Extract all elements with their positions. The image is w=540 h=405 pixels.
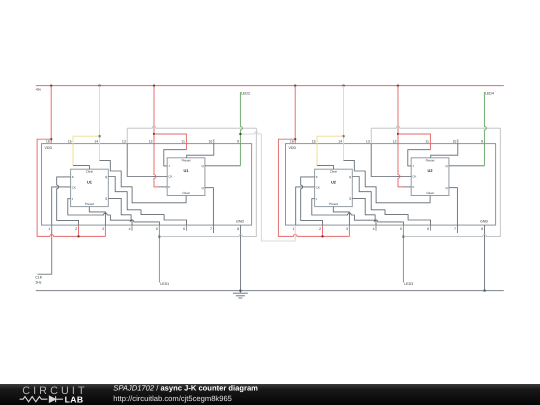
junction on +5v rail (294, 85, 296, 87)
svg-text:Preset: Preset (182, 158, 191, 162)
pin numbers top row U2 (290, 140, 483, 144)
junction pin5 loop U1 (158, 236, 160, 238)
svg-text:6: 6 (183, 227, 185, 231)
wire pin8 to ground U1 (240, 225, 242, 291)
svg-text:11: 11 (425, 140, 429, 144)
wire yellow branch pin15 U2 (317, 136, 344, 165)
svg-text:CLK: CLK (35, 276, 43, 280)
junction gnd rail right IC (484, 290, 486, 292)
svg-text:1Hz: 1Hz (35, 281, 42, 285)
svg-text:16: 16 (290, 140, 294, 144)
svg-text:Preset: Preset (85, 202, 94, 206)
svg-text:CK: CK (316, 185, 320, 189)
svg-text:VDD: VDD (45, 146, 53, 150)
svg-text:13: 13 (366, 140, 370, 144)
wire hop k1 over clk1 U2 (300, 185, 302, 188)
wire Clear1 U1 (73, 166, 90, 170)
svg-text:U2: U2 (428, 168, 434, 173)
wire cascade Q2 to U2 clock (240, 134, 295, 241)
svg-text:Preset: Preset (329, 202, 338, 206)
svg-text:3: 3 (346, 227, 348, 231)
pin stub 6 U2 (430, 225, 432, 231)
junction on +5v rail (99, 85, 101, 87)
wire yellow branch pin15 U1 (73, 136, 100, 165)
wire red pin2 stub U2 (322, 225, 324, 236)
junction gnd rail left IC (239, 290, 241, 292)
svg-text:K: K (316, 175, 318, 179)
wire red pin3 stub U1 (104, 225, 106, 236)
pin stub 4 U1 (131, 225, 133, 231)
svg-text:13: 13 (122, 140, 126, 144)
junction pin16 U2 (294, 138, 296, 140)
svg-text:1: 1 (48, 227, 50, 231)
wire LED 1 green pin5 U1 (158, 225, 160, 282)
pin numbers bottom row U1 (48, 227, 239, 231)
svg-text:Clear: Clear (330, 170, 337, 174)
svg-text:6: 6 (427, 227, 429, 231)
wire J1 to pin4 U1 (68, 199, 132, 225)
svg-text:SPAJD1702 / async J-K counter: SPAJD1702 / async J-K counter diagram (113, 384, 258, 393)
junction on +5v rail (343, 85, 345, 87)
wire red pin2 stub U1 (78, 225, 80, 236)
IC U1 DIP outline (42, 144, 252, 226)
wire pin8 to ground U2 (484, 225, 486, 291)
wire +5v red drop pin12 U2 (397, 86, 399, 134)
svg-text:CK: CK (412, 175, 416, 179)
svg-text:2: 2 (75, 227, 77, 231)
wire red left branch U1 (37, 139, 105, 236)
wire +5v drop to pin 16 U2 (294, 86, 296, 144)
svg-text:http://circuitlab.com/cjt5cegm: http://circuitlab.com/cjt5cegm8k965 (113, 394, 232, 403)
svg-text:GND: GND (480, 220, 488, 224)
wire hop cascade over loop (255, 133, 258, 135)
pin numbers top row U1 (46, 140, 239, 144)
wire LED 2 green to Q2 U1 (239, 92, 241, 166)
wire hop red bottom U2 (294, 235, 297, 237)
svg-text:GND: GND (236, 220, 244, 224)
svg-text:11: 11 (181, 140, 185, 144)
node +5v power rail (36, 85, 504, 87)
svg-text:5: 5 (400, 227, 402, 231)
flip-flop A of U1 box (71, 169, 109, 206)
wire hop loop over gnd U2 (483, 236, 486, 238)
svg-text:Preset: Preset (426, 158, 435, 162)
junction red pin2 U2 (322, 235, 324, 237)
wire K1 U1 (57, 177, 79, 225)
wire K2 segment U1 (159, 186, 168, 188)
svg-text:LED1: LED1 (160, 282, 169, 286)
svg-text:9: 9 (237, 140, 239, 144)
junction cascade on green (239, 133, 241, 135)
svg-text:K: K (168, 185, 170, 189)
wire Q1 staircase to pin5 U2 (352, 198, 403, 225)
wire hop q1 tail over pin4 wire U1 (131, 221, 134, 223)
svg-text:9: 9 (481, 140, 483, 144)
flip-flop B of U2 labels (412, 158, 448, 195)
wire Qbar1 staircase to pin6 U2 (352, 177, 430, 226)
svg-text:8: 8 (237, 227, 239, 231)
svg-text:10: 10 (452, 140, 456, 144)
junction pin5 loop U2 (402, 236, 404, 238)
junction pin16 U1 (50, 138, 52, 140)
node GND rail wire (36, 290, 504, 292)
wire hop j1 over preset1 U1 (104, 214, 107, 216)
svg-text:4: 4 (129, 227, 131, 231)
wire Clear2 staircase U2 (344, 160, 431, 202)
IC U2 DIP outline (286, 144, 496, 226)
flip-flop B of U1 labels (168, 158, 204, 195)
wire loop pin13 to pin5 U2 (371, 128, 500, 236)
pin stub 6 U1 (186, 225, 188, 231)
wire loop pin13 to pin5 U1 (127, 128, 256, 236)
wire red pin12 to K input U2 (398, 134, 403, 187)
flip-flop A of U1 labels (72, 170, 108, 207)
svg-text:LAB: LAB (65, 395, 84, 405)
svg-text:U1: U1 (87, 179, 93, 184)
junction red pin2 U1 (78, 235, 80, 237)
wire red branch to pin11 U1 (154, 134, 186, 150)
wire +5v drop to pin 16 U1 (50, 86, 52, 144)
svg-text:CK: CK (72, 185, 76, 189)
wire LED 3 green pin5 U2 (402, 225, 404, 282)
flip-flop A of U2 box (315, 169, 353, 206)
wire hop red bottom U1 (50, 235, 53, 237)
svg-text:VDD: VDD (289, 146, 297, 150)
wire red pin12 to K input U1 (154, 134, 159, 187)
svg-text:7: 7 (454, 227, 456, 231)
wire Preset1 to pin3 U2 (333, 207, 349, 226)
svg-text:5: 5 (156, 227, 158, 231)
svg-text:16: 16 (46, 140, 50, 144)
wire Clear2 staircase U1 (100, 160, 187, 202)
wire J2 from pin11 U2 (408, 150, 431, 166)
svg-text:+5v: +5v (35, 88, 41, 92)
wire red branch to pin11 U2 (398, 134, 430, 150)
flip-flop B of U2 box (411, 158, 449, 196)
junction on +5v rail (50, 85, 52, 87)
wire red pin3 stub U2 (348, 225, 350, 236)
wire Q2 to pin9 U2 (449, 165, 485, 167)
wire K2 segment U2 (403, 186, 412, 188)
svg-text:14: 14 (338, 140, 342, 144)
pin numbers bottom row U2 (292, 227, 483, 231)
svg-text:10: 10 (208, 140, 212, 144)
wire hop j1 over preset1 U2 (348, 214, 351, 216)
wire hop k1 over clk1 U1 (56, 185, 58, 188)
wire CLK1 U1 (52, 187, 71, 225)
wire hop loop over gnd U1 (239, 236, 242, 238)
wire Preset2 from pin10 U2 (431, 144, 458, 158)
svg-text:CK: CK (168, 175, 172, 179)
wire hop red over clk2 U2 (397, 175, 399, 178)
wire CLK2 from pin13 U1 (127, 144, 167, 177)
wire +5v yellow drop pin14 U2 (343, 86, 345, 161)
svg-text:14: 14 (94, 140, 98, 144)
pin stub 10 U2 (457, 139, 459, 143)
wire Preset2 from pin10 U1 (187, 144, 214, 158)
svg-text:2: 2 (319, 227, 321, 231)
svg-text:Clear: Clear (86, 170, 93, 174)
svg-text:12: 12 (149, 140, 153, 144)
wire hop loop over red U2 (397, 127, 400, 129)
svg-text:4: 4 (373, 227, 375, 231)
wire K1 U2 (301, 177, 323, 225)
svg-text:K: K (412, 185, 414, 189)
svg-text:Clear: Clear (182, 191, 189, 195)
svg-text:7: 7 (210, 227, 212, 231)
svg-text:U1: U1 (184, 168, 190, 173)
svg-text:8: 8 (481, 227, 483, 231)
junction yellow U2 (343, 135, 345, 137)
flip-flop A of U2 labels (316, 170, 352, 207)
wire J2 from pin11 U1 (164, 150, 187, 166)
junction yellow U1 (99, 135, 101, 137)
logo resistor-diode symbol and LAB (20, 396, 63, 402)
wire hop loop over red U1 (153, 127, 156, 129)
junction on +5v rail (397, 85, 399, 87)
svg-text:U2: U2 (331, 179, 337, 184)
wire Q1 staircase to pin5 U1 (108, 198, 159, 225)
wire hop red over clk2 U1 (153, 175, 155, 178)
svg-text:12: 12 (393, 140, 397, 144)
flip-flop B of U1 box (167, 158, 205, 196)
wire +5v red drop pin12 U1 (153, 86, 155, 134)
wire Qbar1 staircase to pin6 U1 (108, 177, 186, 226)
junction on +5v rail (153, 85, 155, 87)
wire CLK1 U2 (296, 187, 315, 225)
wire +5v yellow drop pin14 U1 (99, 86, 101, 161)
junction pin12 branch U2 (397, 133, 399, 135)
wire Clear1 U2 (317, 166, 334, 170)
wire CLK2 from pin13 U2 (371, 144, 411, 177)
wire LED 4 green to Q2 U2 (483, 92, 485, 166)
svg-text:1: 1 (292, 227, 294, 231)
wire Qbar2 to pin7 U2 (449, 188, 458, 233)
wire Q2 to pin9 U1 (205, 165, 241, 167)
wire hop q1 tail over pin4 wire U2 (375, 221, 378, 223)
svg-text:LED2: LED2 (241, 92, 250, 96)
wire CLK input (38, 225, 52, 274)
svg-text:LED3: LED3 (404, 282, 413, 286)
wire red left branch U2 (278, 139, 349, 236)
svg-text:K: K (72, 175, 74, 179)
wire Preset1 to pin3 U1 (89, 207, 105, 226)
junction pin12 branch U1 (153, 133, 155, 135)
wire hop green over loop U2 (483, 127, 485, 130)
svg-text:Clear: Clear (426, 191, 433, 195)
wire Qbar2 to pin7 U1 (205, 188, 214, 233)
svg-text:15: 15 (312, 140, 316, 144)
wire J1 to pin4 U2 (312, 199, 376, 225)
svg-text:3: 3 (102, 227, 104, 231)
svg-text:LED4: LED4 (485, 92, 494, 96)
wire hop green over loop U1 (239, 127, 241, 130)
svg-text:15: 15 (68, 140, 72, 144)
pin stub 10 U1 (213, 139, 215, 143)
pin stub 4 U2 (375, 225, 377, 231)
ground symbol (233, 291, 248, 298)
